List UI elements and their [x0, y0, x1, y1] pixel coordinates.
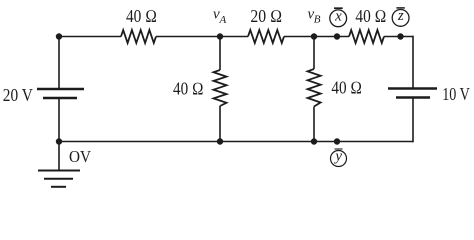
wire vB vertical lower	[313, 107, 315, 142]
svg-text:B: B	[314, 14, 321, 26]
wire left vertical upper	[58, 36, 60, 89]
node junction dot bottom vA	[217, 138, 223, 144]
node junction dot bottom vB	[311, 138, 317, 144]
svg-text:40 Ω: 40 Ω	[173, 79, 204, 99]
svg-text:20 V: 20 V	[3, 85, 33, 105]
node vB junction dot	[311, 33, 317, 39]
wire R3 to top-right corner	[384, 36, 413, 38]
resistor R3 40 ohm horizontal	[349, 30, 384, 43]
wire left vertical lower	[58, 98, 60, 142]
resistor R1 40 ohm horizontal	[121, 30, 156, 43]
node y junction dot	[334, 138, 340, 144]
node z junction dot	[397, 33, 403, 39]
node vA junction dot	[217, 33, 223, 39]
wire between R1 and node vA	[156, 36, 248, 38]
wire vA vertical upper	[219, 37, 221, 71]
node junction dot top-left	[56, 33, 62, 39]
node x junction dot	[334, 33, 340, 39]
wire vB vertical upper	[313, 37, 315, 70]
svg-text:10 V: 10 V	[442, 84, 470, 104]
ground	[38, 171, 80, 187]
wire right vertical lower	[412, 98, 414, 143]
wire right vertical upper	[412, 36, 414, 89]
wire vA vertical lower	[219, 106, 221, 142]
svg-text:A: A	[219, 14, 227, 26]
svg-text:z: z	[397, 8, 404, 24]
svg-text:40 Ω: 40 Ω	[331, 78, 362, 98]
svg-text:40 Ω: 40 Ω	[126, 6, 157, 26]
node label circle z	[392, 8, 409, 26]
svg-text:20 Ω: 20 Ω	[250, 6, 282, 26]
svg-text:40 Ω: 40 Ω	[355, 6, 386, 26]
battery B2 short plate	[396, 96, 430, 98]
svg-text:y: y	[333, 148, 342, 164]
resistor R2 20 ohm horizontal	[248, 30, 284, 43]
svg-text:OV: OV	[69, 147, 92, 166]
wire to ground	[58, 142, 60, 171]
resistor R4 40 ohm vertical	[214, 70, 227, 106]
svg-text:x: x	[334, 8, 342, 24]
wire top-left segment	[59, 36, 121, 38]
wire between R2 and R3	[284, 36, 349, 38]
node label circle y	[331, 148, 347, 166]
battery B1 short plate	[43, 97, 77, 99]
node label circle x	[330, 8, 347, 27]
battery B1 long plate	[37, 88, 84, 90]
node junction dot bottom-left	[56, 138, 62, 144]
wire bottom	[59, 141, 413, 143]
battery B2 long plate	[388, 87, 437, 89]
resistor R5 40 ohm vertical	[308, 69, 321, 107]
